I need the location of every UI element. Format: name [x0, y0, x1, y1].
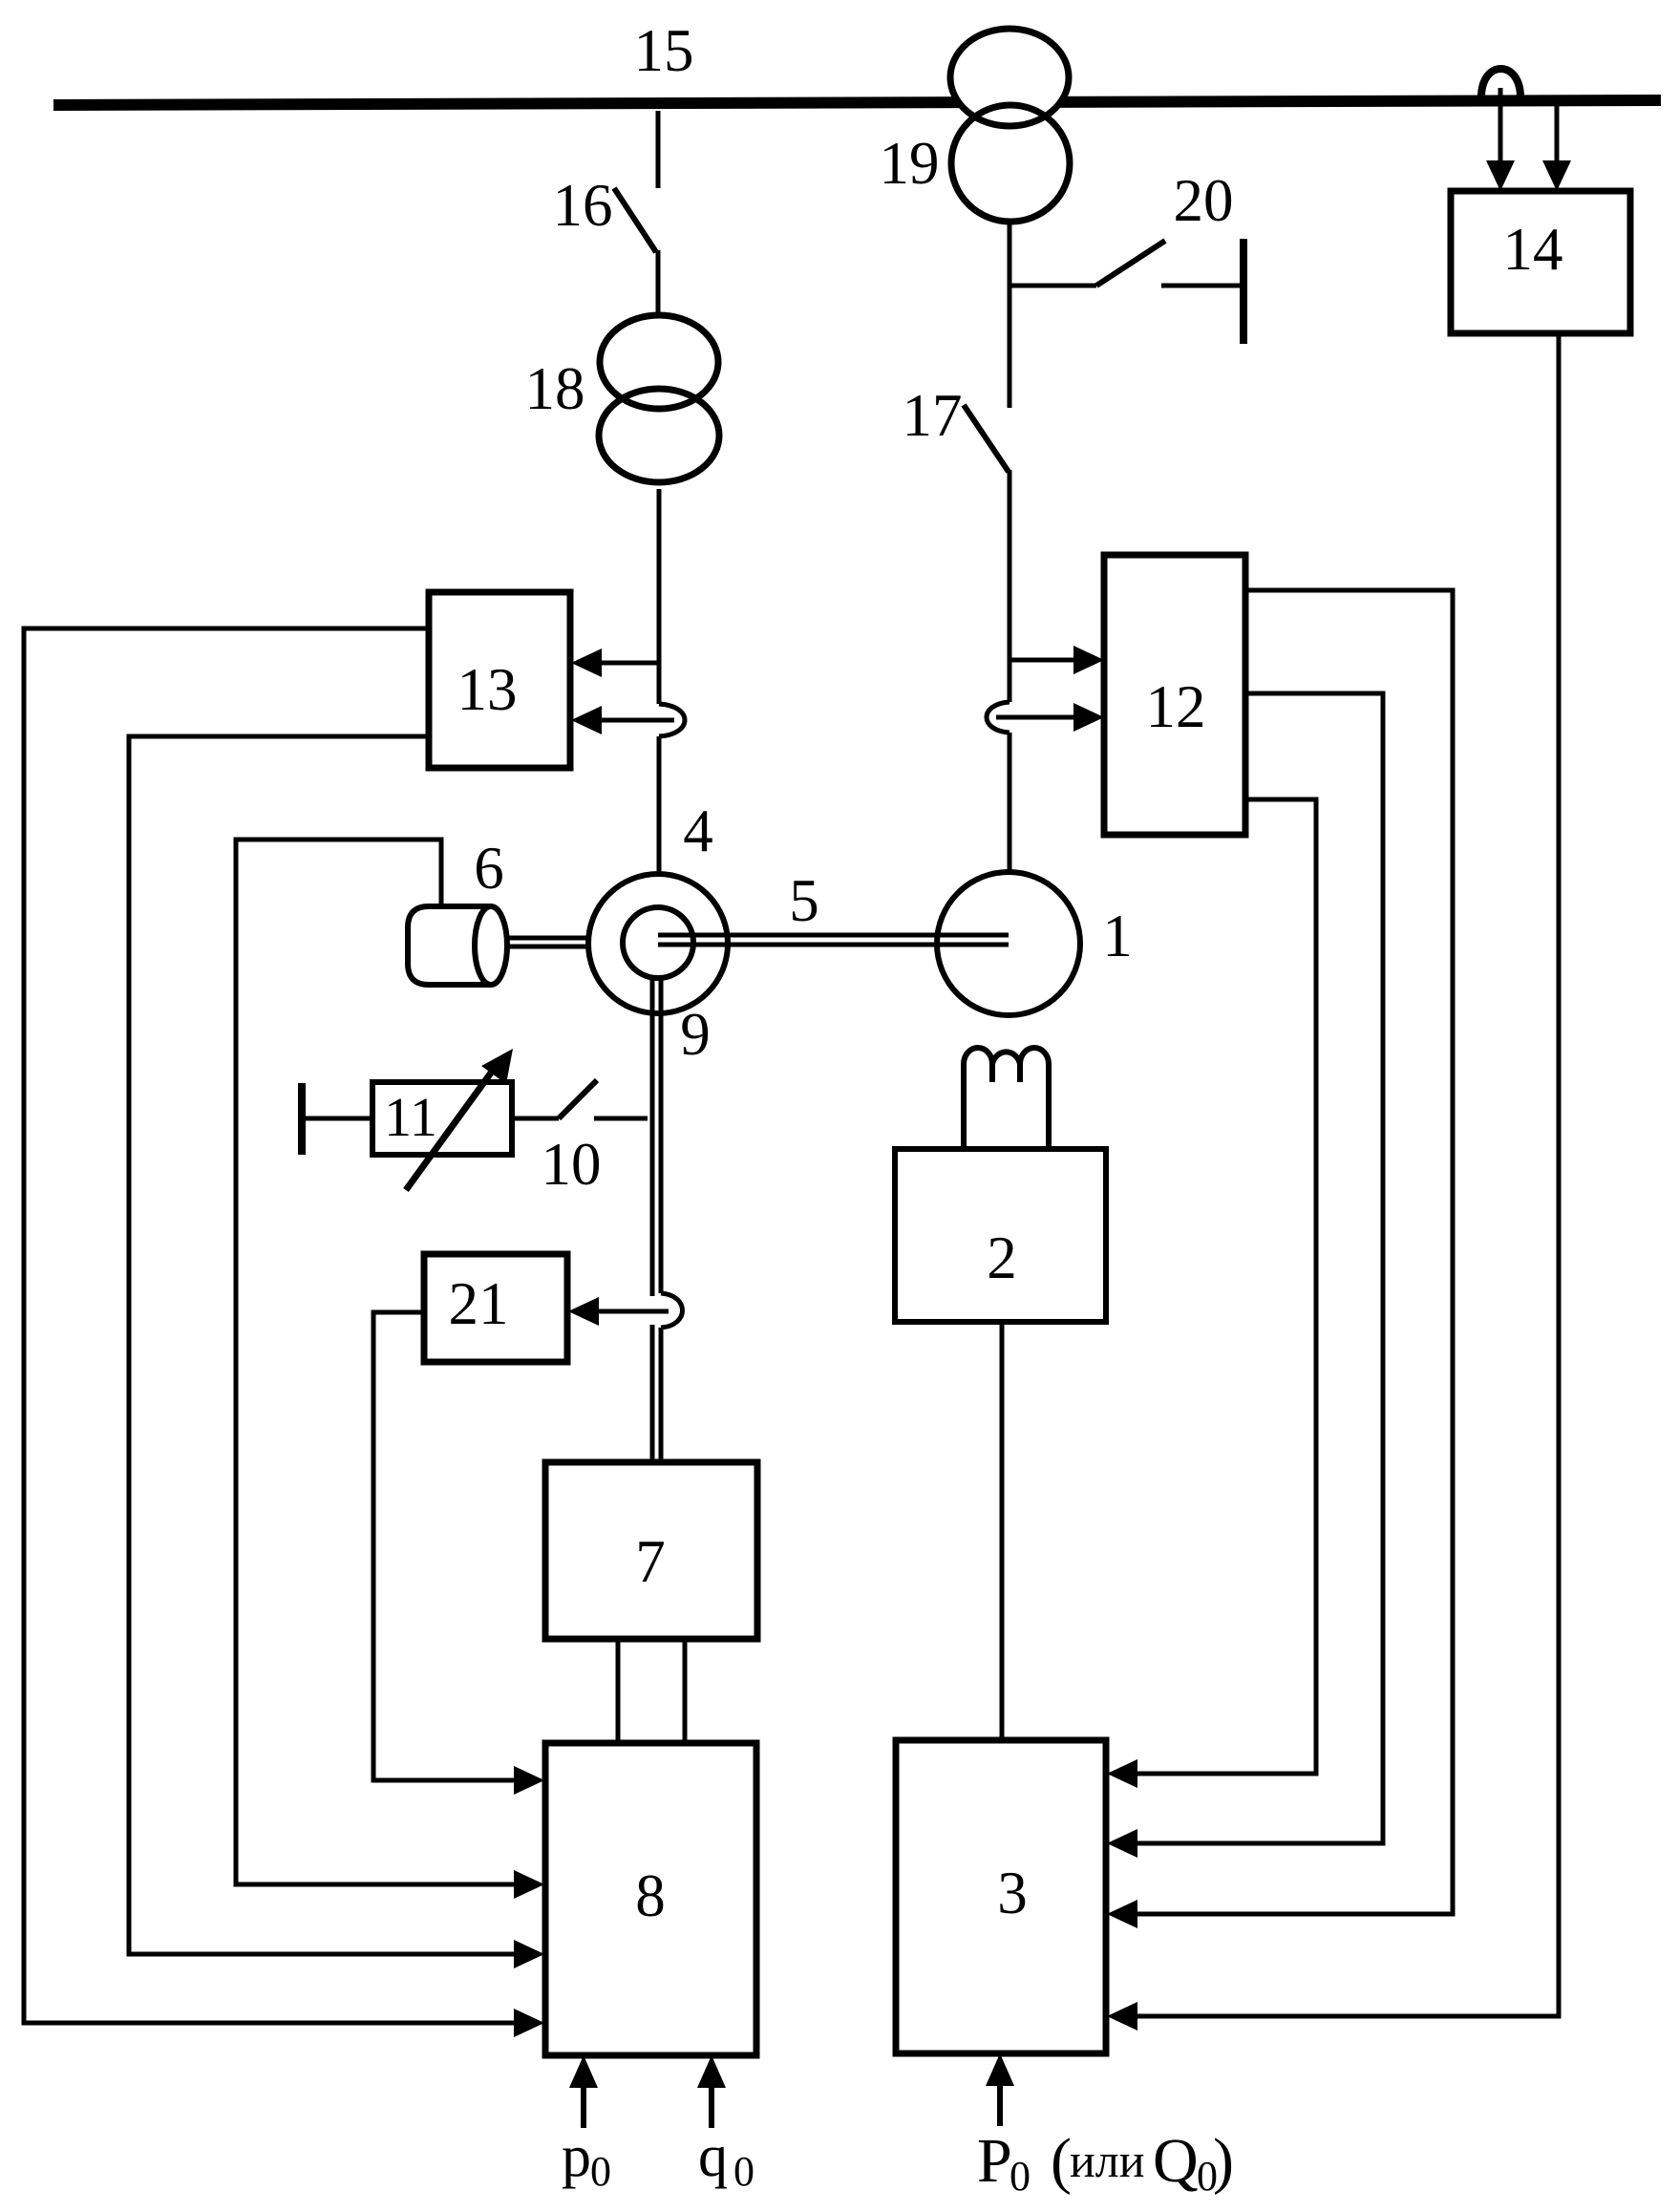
switch 16 [614, 188, 656, 252]
crossover hop on wire at block 13 lower tap [659, 704, 685, 736]
wire block 14 to block 3 input d [1137, 333, 1559, 2016]
transformer 18 [599, 315, 719, 482]
wire terminal to resistor 11 [302, 1117, 372, 1121]
motor 4 [588, 874, 728, 1013]
wire block 12 to block 3 input b [1137, 693, 1383, 1843]
block 7 [545, 1462, 757, 1639]
excitation winding of generator 1 [964, 1048, 1049, 1149]
tap wire to block 13 lower input [601, 718, 674, 723]
block 21 [424, 1254, 567, 1362]
svg-text:17: 17 [903, 382, 963, 449]
svg-text:21: 21 [449, 1270, 509, 1337]
wire switch 16 to transformer 18 [656, 250, 661, 315]
svg-text:11: 11 [384, 1086, 437, 1148]
svg-text:18: 18 [525, 355, 585, 422]
block 8 [545, 1743, 756, 2055]
tap wire to block 12 upper input [1010, 658, 1073, 663]
wire switch 17 to generator 1 [1008, 470, 1012, 702]
svg-text:0: 0 [1010, 2153, 1031, 2200]
wire block 13 to block 8 input c [129, 736, 514, 1954]
wire block 21 to block 8 input a [373, 1312, 514, 1780]
svg-text:10: 10 [542, 1131, 602, 1198]
svg-text:12: 12 [1146, 673, 1206, 740]
input P0 arrow [997, 2086, 1003, 2126]
wire block 2 to block 3 [1000, 1322, 1005, 1740]
svg-text:5: 5 [789, 867, 819, 934]
generator 1 [937, 872, 1080, 1015]
svg-text:7: 7 [635, 1528, 666, 1595]
switch 10 [512, 1080, 648, 1118]
crossover hop on shaft 9 at block 21 tap [661, 1293, 683, 1328]
svg-text:0: 0 [590, 2148, 611, 2195]
svg-text:13: 13 [457, 656, 518, 723]
svg-text:P: P [977, 2126, 1012, 2196]
wire block 12 to block 3 input c [1137, 590, 1453, 1914]
bus crossover hop near block 14 [1481, 69, 1520, 97]
svg-text:20: 20 [1174, 167, 1234, 234]
block 2 [895, 1149, 1106, 1322]
svg-text:или: или [1070, 2134, 1144, 2187]
wire transformer 19 to switch 17 [1008, 222, 1012, 408]
svg-text:q: q [698, 2124, 728, 2189]
resistor 11 (variable) [372, 1082, 512, 1155]
svg-text:1: 1 [1102, 903, 1133, 969]
tap wire to block 13 upper input [601, 661, 659, 666]
svg-text:14: 14 [1503, 216, 1563, 283]
wire block 13 to block 8 input d [24, 628, 514, 2023]
shaft 9 motor 4 to block 7 [652, 978, 661, 1462]
svg-text:(: ( [1051, 2126, 1072, 2196]
transformer 19 [950, 29, 1070, 222]
svg-text:): ) [1213, 2126, 1234, 2196]
tachogenerator 6 [408, 906, 507, 985]
wire bus to block 14 input 2 [1555, 106, 1560, 162]
tap wire to block 12 lower input [996, 715, 1073, 720]
bus line 15 [53, 100, 1661, 105]
crossover hop on wire at block 12 lower tap [987, 702, 1010, 733]
svg-text:9: 9 [680, 1001, 711, 1068]
terminal bar at resistor 11 [298, 1083, 306, 1155]
svg-text:0: 0 [733, 2148, 754, 2195]
svg-text:16: 16 [553, 172, 613, 239]
tap wire to block 21 input [599, 1309, 669, 1314]
svg-text:15: 15 [634, 17, 694, 84]
wire block 12 to block 3 input a [1137, 799, 1316, 1774]
svg-text:2: 2 [987, 1224, 1017, 1291]
svg-text:19: 19 [880, 130, 940, 197]
block 14 [1451, 191, 1630, 333]
svg-text:8: 8 [635, 1862, 666, 1929]
block 3 [896, 1740, 1106, 2053]
wire bus tap to block 14 input 1 [1498, 88, 1503, 162]
svg-text:Q: Q [1153, 2126, 1199, 2196]
block 13 [429, 592, 570, 768]
switch 20 [1010, 239, 1243, 344]
shaft between tachogenerator 6 and motor 4 [500, 936, 611, 941]
wires block 7 to block 8 [616, 1639, 621, 1743]
wire bus to switch 16 [656, 111, 661, 188]
shaft 5 motor 4 to generator 1 [658, 933, 1009, 938]
wire tachogenerator 6 to block 8 input b [236, 840, 514, 1884]
switch 17 [964, 405, 1009, 472]
wire transformer 18 to motor 4 [657, 489, 662, 704]
variable-resistor arrow [406, 1065, 497, 1190]
input p0 arrow [581, 2088, 586, 2128]
svg-text:3: 3 [997, 1860, 1028, 1926]
svg-text:p: p [562, 2124, 591, 2189]
svg-text:6: 6 [474, 835, 504, 902]
input q0 arrow [709, 2088, 714, 2128]
svg-text:4: 4 [683, 798, 713, 864]
block 12 [1104, 555, 1245, 835]
